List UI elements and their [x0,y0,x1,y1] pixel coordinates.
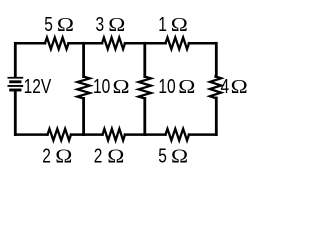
svg-text:1: 1 [158,13,167,36]
svg-text:10: 10 [158,75,175,98]
wire top-left segment [15,42,45,45]
wire bottom segment B-C [125,133,166,136]
wire middle rail 1 lower [82,98,85,134]
battery 12V plates long (thin) [8,78,22,86]
wire bottom segment A-B [71,133,103,136]
resistor 2ohm bottom-left [48,129,72,141]
svg-text:Ω: Ω [107,145,124,167]
svg-text:Ω: Ω [113,76,130,98]
wire bottom-right segment [189,133,216,136]
wire left rail upper [14,43,17,76]
wire middle rail 2 lower [143,98,146,134]
svg-text:4: 4 [221,75,230,98]
svg-text:Ω: Ω [178,76,195,98]
resistor 2ohm bottom-middle [103,129,126,141]
svg-text:3: 3 [96,13,105,36]
svg-text:10: 10 [93,75,110,98]
svg-text:2: 2 [94,144,103,167]
wire left rail lower [14,92,17,135]
battery 12V plates short (thick) [11,82,20,90]
svg-text:5: 5 [44,13,53,36]
resistor 10ohm left vertical [77,77,89,99]
resistor 5ohm top [45,38,69,50]
resistor 1ohm top [166,38,190,50]
svg-text:Ω: Ω [171,14,188,36]
svg-text:Ω: Ω [57,14,74,36]
svg-text:12V: 12V [24,75,52,98]
svg-text:Ω: Ω [55,145,72,167]
resistor 3ohm top [102,38,125,50]
wire right rail upper [215,43,218,76]
resistor 10ohm right vertical [139,77,151,99]
wire top-right segment [189,42,216,45]
wire right rail lower [215,98,218,135]
wire top segment B-C [125,42,166,45]
wire middle rail 1 upper / node A [82,43,85,76]
svg-text:5: 5 [158,144,167,167]
resistor 4ohm vertical [210,77,221,99]
wire bottom-left segment [15,133,47,136]
resistor 5ohm bottom [166,129,190,141]
svg-text:Ω: Ω [231,76,248,98]
wire top segment A-B [69,42,103,45]
svg-text:Ω: Ω [171,145,188,167]
svg-text:2: 2 [42,144,51,167]
wire middle rail 2 upper / node B [143,43,146,76]
svg-text:Ω: Ω [108,14,125,36]
